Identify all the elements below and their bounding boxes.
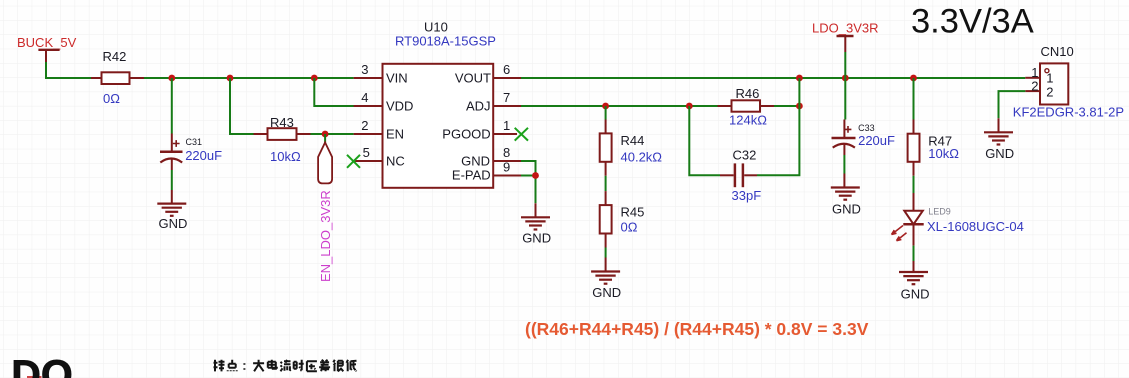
wire C31 to GND [171,170,173,190]
resistor R42 [91,49,144,106]
node junction EN branch [227,75,234,82]
svg-text:220uF: 220uF [858,133,895,148]
svg-text:124kΩ: 124kΩ [729,112,767,127]
power flag LDO_3V3R [812,21,878,53]
op-amp U10 [383,20,496,188]
svg-text:LDO_3V3R: LDO_3V3R [812,21,878,36]
svg-text:GND: GND [901,286,930,301]
port EN_LDO_3V3R [318,143,333,283]
wire C31 branch [171,78,173,134]
svg-text:XL-1608UGC-04: XL-1608UGC-04 [927,219,1024,234]
svg-text:9: 9 [503,160,510,175]
capacitor C33 [832,120,896,156]
wire R45 to GND [605,248,607,258]
pin 8 GND [461,145,521,168]
svg-text:VIN: VIN [386,70,408,85]
pin 2 EN [354,118,404,141]
pin 9 E-PAD [452,160,521,183]
svg-text:VDD: VDD [386,98,413,113]
svg-text:0Ω: 0Ω [621,220,638,235]
svg-text:7: 7 [503,90,510,105]
node junction EN port [322,131,329,138]
svg-text:R44: R44 [621,133,645,148]
wire port stem [324,134,326,144]
svg-text:6: 6 [503,62,510,77]
resistor R43 [254,115,311,164]
svg-text:EN: EN [386,126,404,141]
svg-text:GND: GND [832,201,861,216]
caption 特点：大电流时压差很低 (drawn strokes) [214,360,357,372]
svg-text:R43: R43 [270,115,294,130]
wire GND/E-PAD net [521,161,536,203]
svg-text:3: 3 [361,62,368,77]
node junction C31 branch [168,75,175,82]
svg-text:C33: C33 [858,123,875,133]
node junction VOUT feedback [796,75,803,82]
resistor R45 [600,191,645,247]
svg-text:GND: GND [461,153,490,168]
svg-text:40.2kΩ: 40.2kΩ [621,150,663,165]
wire LED to GND [913,246,915,261]
ground under U10 [521,203,551,245]
svg-text:U10: U10 [424,20,448,35]
wire R47 branch [913,78,915,120]
node junction E-PAD [532,172,539,179]
power flag BUCK_5V [17,35,77,63]
ground under C33 [831,174,861,217]
wire C33 to GND [843,155,845,174]
node junction VDD branch [311,75,318,82]
wire R42 to VIN rail [144,77,354,79]
wire VOUT rail [521,77,1025,79]
svg-text:R42: R42 [103,49,127,64]
capacitor C31 [160,134,222,171]
svg-text:GND: GND [985,146,1014,161]
node junction LDO flag [842,75,849,82]
LED LED9 [892,193,1024,246]
svg-text:R45: R45 [621,205,645,220]
svg-text:PGOOD: PGOOD [442,126,490,141]
svg-text:ADJ: ADJ [466,98,491,113]
svg-text:1: 1 [1046,71,1053,86]
svg-text:NC: NC [386,153,405,168]
node junction R46 right [796,103,803,110]
svg-text:R46: R46 [736,86,760,101]
svg-text:8: 8 [503,145,510,160]
pin 6 VOUT [455,62,521,85]
svg-text:LED9: LED9 [928,207,951,217]
wire C32 right to VOUT [757,78,799,175]
wire C32 branch left [689,106,720,175]
red fragment bottom [27,376,42,378]
resistor R44 [600,106,663,176]
svg-text:220uF: 220uF [185,148,222,163]
node junction R47 [910,75,917,82]
pin 1 PGOOD [442,118,528,141]
ground under LED9 [899,261,929,301]
svg-text:GND: GND [522,231,551,246]
svg-text:10kΩ: 10kΩ [270,149,301,164]
ground under C31 [157,190,187,231]
wire LDO flag to rail [844,52,846,78]
capacitor C32 [720,148,761,204]
pin 3 VIN [354,62,408,85]
wire BUCK_5V to R42 [46,62,91,78]
resistor R47 [908,120,960,176]
wire R47 to LED [913,176,915,193]
svg-text:GND: GND [592,285,621,300]
svg-text:10kΩ: 10kΩ [928,146,959,161]
ground under CN10 [984,118,1014,161]
svg-text:E-PAD: E-PAD [452,168,491,183]
wire EN branch [230,78,254,134]
wire C33 branch [844,78,846,120]
svg-text:0Ω: 0Ω [103,91,120,106]
svg-text:33pF: 33pF [732,188,762,203]
svg-text:EN_LDO_3V3R: EN_LDO_3V3R [318,190,333,282]
wire ADJ rail [521,105,799,107]
wire CN10 pin2 to GND [999,91,1026,118]
svg-text:5: 5 [363,145,370,160]
svg-text:CN10: CN10 [1041,44,1074,59]
svg-text:KF2EDGR-3.81-2P: KF2EDGR-3.81-2P [1013,105,1124,120]
pin 1 CN10 [1025,65,1040,80]
pin 2 CN10 [1025,78,1040,93]
svg-text:GND: GND [159,216,188,231]
svg-text:2: 2 [1046,85,1053,100]
svg-text:1: 1 [503,118,510,133]
svg-text:3.3V/3A: 3.3V/3A [911,3,1034,41]
pin 5 NC [347,145,405,168]
svg-text:2: 2 [361,118,368,133]
svg-text:BUCK_5V: BUCK_5V [17,35,77,50]
wire R44 to R45 [605,176,607,191]
svg-text:C32: C32 [733,148,757,163]
svg-text:2: 2 [1031,78,1038,93]
node junction C32 left [686,103,693,110]
pin 4 VDD [314,78,413,113]
node junction R44 [602,103,609,110]
svg-text:4: 4 [361,90,368,105]
svg-text:VOUT: VOUT [455,70,491,85]
ground under R45 [591,258,621,300]
connector CN10 [1013,44,1124,120]
svg-text:RT9018A-15GSP: RT9018A-15GSP [395,34,496,49]
pin 7 ADJ [466,90,521,113]
svg-text:((R46+R44+R45) / (R44+R45) * 0: ((R46+R44+R45) / (R44+R45) * 0.8V = 3.3V [525,319,869,339]
svg-text:DQ: DQ [11,351,73,378]
resistor R46 [718,86,775,127]
wire R43 to EN pin [311,133,354,135]
svg-text:C31: C31 [186,137,203,147]
